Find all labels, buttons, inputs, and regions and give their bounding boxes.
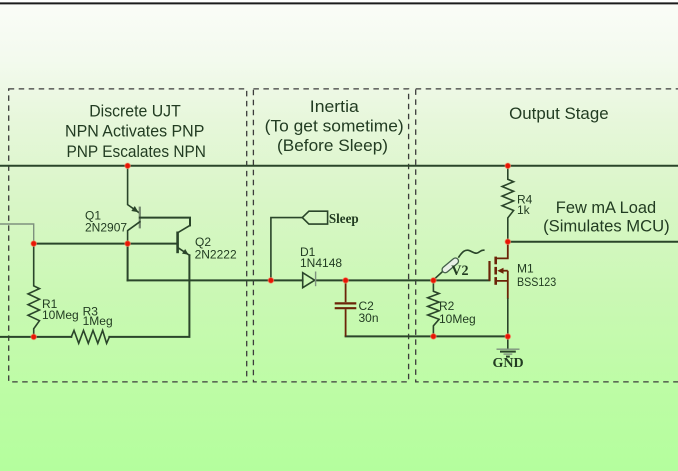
svg-text:Sleep: Sleep bbox=[329, 212, 359, 227]
svg-text:PNP Escalates NPN: PNP Escalates NPN bbox=[67, 143, 206, 161]
junction R2 bottom bbox=[431, 334, 437, 340]
junction rail/Q1 emitter bbox=[125, 163, 131, 169]
junction Q1 collector/Q2 base bbox=[125, 241, 131, 247]
wire signal node to D1 anode bbox=[128, 279, 303, 281]
wire sleep tap bbox=[271, 218, 302, 281]
section box Inertia bbox=[253, 89, 408, 382]
svg-text:(Simulates MCU): (Simulates MCU) bbox=[543, 217, 670, 236]
transistor Q2 2N2222 bbox=[178, 225, 190, 255]
wire R3 to Q2 emitter bbox=[109, 255, 189, 337]
resistor R1 bbox=[28, 244, 40, 337]
svg-text:10Meg: 10Meg bbox=[42, 308, 79, 322]
wire left input (gray) bbox=[0, 224, 34, 244]
top border line bbox=[0, 2, 678, 4]
svg-text:Discrete UJT: Discrete UJT bbox=[89, 102, 181, 120]
junction C2 top bbox=[343, 278, 349, 284]
junction source/GND bbox=[505, 334, 511, 340]
svg-text:GND: GND bbox=[492, 356, 523, 371]
section title Discrete UJT bbox=[65, 102, 206, 160]
capacitor C2 bbox=[335, 281, 357, 336]
wire output node to right edge bbox=[508, 241, 678, 243]
svg-text:2N2222: 2N2222 bbox=[195, 248, 237, 262]
resistor R4 bbox=[502, 167, 513, 242]
svg-text:(Before Sleep): (Before Sleep) bbox=[277, 137, 388, 155]
section box Output Stage bbox=[416, 89, 678, 382]
svg-text:1Meg: 1Meg bbox=[83, 314, 113, 328]
svg-text:M1: M1 bbox=[517, 262, 534, 276]
junction rail/R4 bbox=[505, 163, 511, 169]
svg-text:NPN Activates PNP: NPN Activates PNP bbox=[65, 123, 204, 141]
junction R4 bottom/drain bbox=[505, 239, 511, 245]
svg-text:Inertia: Inertia bbox=[310, 98, 360, 116]
annotation Few mA Load bbox=[543, 198, 670, 236]
svg-text:Output Stage: Output Stage bbox=[509, 105, 608, 123]
ground bbox=[497, 337, 520, 357]
resistor R3 bbox=[71, 330, 109, 343]
junction R1 bottom bbox=[31, 334, 37, 340]
svg-text:1N4148: 1N4148 bbox=[300, 256, 342, 270]
svg-text:10Meg: 10Meg bbox=[439, 312, 476, 326]
wire bottom left to R3 bbox=[0, 336, 71, 338]
svg-text:V2: V2 bbox=[451, 263, 468, 279]
diode D1 1N4148 bbox=[303, 272, 316, 288]
section box Discrete UJT bbox=[9, 89, 247, 382]
junction sleep tap bbox=[268, 278, 274, 284]
mosfet M1 BSS123 bbox=[490, 243, 508, 337]
junction R2 top/gate bbox=[431, 278, 437, 284]
wire Q1 collector to signal node bbox=[127, 244, 129, 281]
junction R1 top bbox=[31, 241, 37, 247]
wire base node left bbox=[34, 243, 178, 245]
svg-text:(To get sometime): (To get sometime) bbox=[265, 118, 404, 136]
wire Q1 base to Q2 collector bbox=[140, 218, 190, 226]
svg-text:30n: 30n bbox=[359, 311, 379, 325]
wire top supply rail bbox=[0, 165, 678, 167]
svg-text:BSS123: BSS123 bbox=[517, 275, 556, 289]
wire C2 bottom to ground node bbox=[346, 335, 508, 337]
probe V2 bbox=[433, 250, 483, 280]
svg-text:1k: 1k bbox=[517, 203, 531, 217]
resistor R2 bbox=[428, 280, 439, 336]
transistor Q1 2N2907 bbox=[128, 167, 140, 243]
flag Sleep bbox=[302, 211, 327, 224]
wire D1 cathode to M1 gate bbox=[316, 279, 490, 281]
svg-text:2N2907: 2N2907 bbox=[85, 220, 127, 234]
section title Inertia bbox=[265, 98, 404, 155]
svg-text:Few mA Load: Few mA Load bbox=[556, 198, 656, 217]
